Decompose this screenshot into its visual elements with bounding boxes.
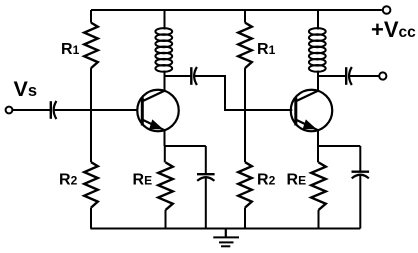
wire node collector2 to C4	[318, 75, 346, 77]
wire bypass branch stage1 upper	[205, 146, 207, 174]
svg-text:R2: R2	[257, 172, 276, 189]
wire R2 stage1 to rail	[90, 208, 92, 229]
wire bypass branch stage2 lower	[359, 175, 361, 228]
wire emitter to RE stage1	[164, 146, 166, 162]
wire emitter to RE stage2	[317, 146, 319, 162]
wire R1 to R2 stage2	[244, 68, 246, 162]
transistor Q2	[291, 90, 333, 132]
inductor L2	[309, 28, 326, 72]
capacitor C2 (interstage coupling)	[191, 67, 197, 85]
wire RE stage2 to rail	[318, 210, 320, 229]
svg-text:RE: RE	[133, 172, 153, 189]
wire L2 top from rail	[317, 10, 319, 30]
wire L1 top from rail	[164, 10, 166, 30]
capacitor C4 (output coupling)	[346, 67, 352, 85]
wire R1 branch stage2 top	[244, 10, 246, 23]
wire R1 to R2 stage1	[90, 68, 92, 162]
ground	[213, 229, 239, 247]
resistor R1 stage2	[238, 23, 252, 69]
resistor RE stage2	[311, 162, 326, 210]
wire top supply rail	[91, 9, 382, 11]
wire bypass branch stage2 upper	[359, 146, 361, 172]
capacitor C5 (emitter bypass stage2)	[352, 172, 370, 179]
wire emitter junction to bypass C3	[165, 145, 206, 147]
capacitor C3 (emitter bypass stage1)	[197, 174, 215, 181]
svg-text:R2: R2	[59, 172, 78, 189]
wire L1 bottom to Q1 collector	[164, 71, 166, 91]
terminal input Vs	[6, 107, 13, 114]
wire R2 stage2 to rail	[244, 208, 246, 229]
terminal output	[379, 72, 386, 79]
wire L2 bottom to Q2 collector	[317, 71, 319, 91]
wire RE stage1 to rail	[165, 210, 167, 229]
wire R1 branch stage1 top	[90, 10, 92, 23]
resistor R2 stage2	[238, 162, 252, 208]
resistor R1 stage1	[84, 23, 98, 69]
svg-text:RE: RE	[287, 172, 307, 189]
wire C1 to Q1 base	[54, 109, 137, 111]
wire emitter junction to bypass C5	[318, 145, 360, 147]
svg-text:R1: R1	[257, 41, 276, 58]
wire Q1 emitter down	[164, 130, 166, 146]
transistor Q1	[137, 90, 179, 132]
resistor RE stage1	[158, 162, 173, 210]
svg-text:R1: R1	[61, 41, 80, 58]
wire node collector1 to C2	[165, 75, 192, 77]
wire Q2 emitter down	[317, 130, 319, 146]
wire input to C1	[13, 109, 51, 111]
terminal +Vcc	[383, 6, 391, 14]
inductor L1	[155, 28, 172, 72]
wire C4 to output terminal	[350, 75, 380, 77]
resistor R2 stage1	[84, 162, 98, 208]
capacitor C1 (input coupling)	[51, 101, 57, 119]
wire C2 to Q2 base	[195, 76, 293, 110]
wire bypass branch stage1 lower	[205, 178, 207, 229]
wire bottom ground rail	[90, 228, 360, 230]
